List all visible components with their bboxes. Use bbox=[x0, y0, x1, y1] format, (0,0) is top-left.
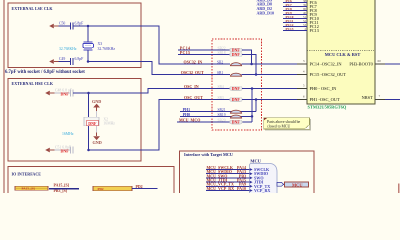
svg-text:PC14 -OSC32_IN: PC14 -OSC32_IN bbox=[310, 61, 343, 66]
MCU U? block bbox=[307, 0, 375, 104]
svg-text:MCU CLK & RST: MCU CLK & RST bbox=[325, 52, 361, 57]
svg-text:GND: GND bbox=[92, 99, 101, 104]
svg-text:PC13: PC13 bbox=[286, 27, 294, 31]
wire node B to OSC32_OUT row bbox=[88, 62, 230, 75]
wire PH0 row bbox=[180, 115, 252, 117]
note box bbox=[264, 118, 311, 131]
harness sheet entry MCU bbox=[285, 182, 309, 187]
wire PC13 bbox=[283, 30, 307, 32]
solder bridge SB3 (DNF) bbox=[218, 96, 243, 102]
svg-text:60: 60 bbox=[378, 59, 382, 63]
harness group MCU bbox=[250, 158, 278, 193]
svg-text:PH3-BOOT0: PH3-BOOT0 bbox=[349, 61, 373, 66]
harness row MCU_SWCLK bbox=[206, 165, 270, 172]
svg-text:PC15 -OSC32_OUT: PC15 -OSC32_OUT bbox=[310, 72, 347, 77]
svg-text:MCU: MCU bbox=[250, 158, 261, 163]
svg-text:16MHz: 16MHz bbox=[103, 122, 115, 126]
wire crystal to node B bbox=[87, 50, 89, 62]
wire PC11 bbox=[283, 22, 307, 24]
svg-text:OSC_OUT: OSC_OUT bbox=[184, 95, 203, 100]
junction OSC32_IN bbox=[250, 63, 253, 66]
svg-text:PB3_[S]: PB3_[S] bbox=[54, 189, 68, 193]
wire MCU_MCO row bbox=[177, 121, 252, 123]
svg-text:NRST: NRST bbox=[362, 95, 374, 100]
wire NRST bbox=[385, 99, 400, 101]
svg-text:PC13: PC13 bbox=[310, 28, 319, 33]
box EXTERNAL LSE CLK bbox=[8, 3, 141, 68]
svg-text:32.768KHz: 32.768KHz bbox=[59, 47, 77, 51]
capacitor C49 bbox=[59, 57, 84, 65]
solder bridge SB18 (DNF) bbox=[218, 51, 243, 57]
svg-text:DNF: DNF bbox=[232, 52, 241, 57]
dashed solder-bridge box bbox=[212, 39, 262, 130]
capacitor C50 bbox=[59, 22, 84, 30]
svg-text:SB22: SB22 bbox=[218, 46, 226, 50]
node A junction bbox=[87, 25, 90, 28]
svg-text:Interface with Target MCU: Interface with Target MCU bbox=[184, 152, 233, 157]
svg-text:SB4: SB4 bbox=[218, 85, 224, 89]
pin stubs (dark) bbox=[297, 63, 307, 65]
svg-text:PA15_[S]: PA15_[S] bbox=[54, 183, 70, 187]
box IO INTERFACE bbox=[8, 167, 174, 197]
svg-text:PH0 - OSC_IN: PH0 - OSC_IN bbox=[310, 86, 338, 91]
svg-text:OSC_IN: OSC_IN bbox=[184, 84, 199, 89]
svg-text:PA15_[S]: PA15_[S] bbox=[22, 187, 35, 191]
solder bridge SB22 (DNF) bbox=[218, 46, 243, 52]
svg-text:DNF: DNF bbox=[232, 120, 241, 125]
solder bridge SB19 (closed) bbox=[218, 113, 242, 118]
svg-text:EXTERNAL LSE CLK: EXTERNAL LSE CLK bbox=[12, 6, 54, 11]
wire SB18 to vertical bbox=[242, 55, 256, 75]
bus wire PA15 bbox=[49, 188, 79, 190]
ground arrow (C49 left) bbox=[49, 59, 58, 64]
wire PH1 row bbox=[180, 111, 256, 113]
junction OSC_IN bbox=[251, 87, 254, 90]
vertical OSC_IN to PH0/MCU_MCO bbox=[251, 89, 253, 123]
solder bridge SB4 (DNF) bbox=[218, 85, 243, 91]
svg-text:SB20: SB20 bbox=[218, 118, 226, 122]
sheet border left bbox=[3, 0, 5, 193]
wire PC7 bbox=[283, 5, 307, 7]
svg-text:SB18: SB18 bbox=[218, 51, 226, 55]
svg-text:16MHz: 16MHz bbox=[62, 132, 74, 136]
solder bridge SB20 (DNF) bbox=[218, 118, 243, 124]
svg-text:EXTERNAL HSE CLK: EXTERNAL HSE CLK bbox=[12, 81, 54, 86]
svg-text:SB19: SB19 bbox=[218, 113, 226, 117]
wire SB22 to vertical bbox=[242, 50, 252, 64]
svg-text:32.768KHz: 32.768KHz bbox=[98, 47, 116, 51]
ground arrow (C51 left) bbox=[45, 148, 54, 153]
wire PC6 bbox=[283, 1, 307, 3]
svg-text:SB1: SB1 bbox=[217, 71, 223, 75]
wire crystal X2 to node D bbox=[88, 126, 90, 150]
wire PC9 bbox=[283, 14, 307, 16]
box Interface with Target MCU bbox=[180, 151, 315, 196]
ground arrow (C50 left) bbox=[49, 24, 58, 29]
solder bridge SB2 (closed) bbox=[217, 60, 242, 65]
net labels PC6..PC13 bbox=[286, 0, 294, 31]
svg-text:X3: X3 bbox=[98, 42, 103, 46]
wire PH3-BOOT0 bbox=[385, 63, 400, 65]
solder bridge SB1 (closed) bbox=[217, 71, 242, 76]
wire to chip pin 4 bbox=[242, 74, 307, 76]
wire PC10 bbox=[283, 18, 307, 20]
pin numbers top bbox=[303, 0, 307, 31]
wire node C down to crystal X2 bbox=[88, 93, 90, 117]
pin 7 stub bbox=[375, 99, 385, 101]
harness connector to MCU box bbox=[277, 182, 287, 186]
svg-text:closed to MCU: closed to MCU bbox=[267, 124, 290, 128]
wire node C to OSC_IN row bbox=[89, 89, 231, 94]
wire node A down to crystal bbox=[87, 26, 89, 42]
junction OSC32_OUT bbox=[255, 73, 258, 76]
wire to chip pin 3 bbox=[242, 63, 307, 65]
GND symbol above crystal bbox=[92, 99, 101, 117]
svg-text:PD2: PD2 bbox=[98, 187, 104, 191]
svg-text:SB3: SB3 bbox=[218, 96, 224, 100]
crystal X3 bbox=[59, 42, 115, 51]
svg-text:DNF: DNF bbox=[232, 86, 241, 91]
svg-text:DNF: DNF bbox=[88, 121, 97, 126]
capacitor C48 (DNF) bbox=[55, 88, 73, 96]
GND symbol below crystal bbox=[93, 126, 102, 145]
sheet border fragment bottom right bbox=[398, 184, 400, 194]
capacitor C51 (DNF) bbox=[55, 146, 73, 154]
wire to chip pin 6 bbox=[242, 99, 307, 101]
ground arrow (C48 left) bbox=[45, 91, 54, 96]
svg-text:SB21: SB21 bbox=[218, 108, 226, 112]
svg-text:C50: C50 bbox=[59, 22, 65, 26]
node C junction bbox=[87, 92, 90, 95]
svg-text:PH1 -OSC_OUT: PH1 -OSC_OUT bbox=[310, 97, 340, 102]
svg-text:6.7pF with socket / 6.8pF with: 6.7pF with socket / 6.8pF without socket bbox=[5, 70, 85, 75]
harness row MCU_JTDI bbox=[206, 178, 264, 185]
net labels ARD bbox=[257, 0, 275, 15]
svg-text:VCP_RX: VCP_RX bbox=[254, 188, 270, 193]
svg-text:6.8pF: 6.8pF bbox=[75, 22, 84, 26]
wire C48 to node C bbox=[73, 92, 89, 94]
svg-text:DNF: DNF bbox=[61, 92, 70, 97]
vertical OSC_OUT to PH1 bbox=[255, 100, 257, 112]
chip-internal pin names PC6..PC13 bbox=[310, 0, 319, 33]
crystal X2 (DNF) bbox=[62, 117, 115, 136]
wire OSC32_IN row bbox=[159, 63, 230, 65]
node D junction bbox=[87, 149, 90, 152]
wire PC12 bbox=[283, 26, 307, 28]
port PD2 bbox=[93, 186, 132, 191]
svg-text:STM32U585RGT6Q: STM32U585RGT6Q bbox=[308, 104, 347, 109]
svg-text:GND: GND bbox=[93, 140, 102, 145]
node B junction bbox=[87, 60, 90, 63]
svg-text:ARD_D10: ARD_D10 bbox=[257, 11, 275, 16]
box EXTERNAL HSE CLK bbox=[8, 78, 141, 161]
junction PH0 bbox=[251, 115, 254, 118]
svg-text:6.8pF: 6.8pF bbox=[75, 57, 84, 61]
svg-text:SB2: SB2 bbox=[217, 60, 223, 64]
wire PC8 bbox=[283, 9, 307, 11]
svg-text:OSC32_OUT: OSC32_OUT bbox=[181, 70, 204, 75]
svg-text:DNF: DNF bbox=[232, 97, 241, 102]
wire node A to OSC32_IN row bbox=[88, 26, 230, 64]
harness row MCU_VCP_RX bbox=[206, 186, 270, 193]
svg-text:DNF: DNF bbox=[61, 149, 70, 154]
wire PC15 row bbox=[178, 54, 230, 56]
wire node D to OSC_OUT row bbox=[89, 100, 231, 151]
pin 60 stub bbox=[375, 63, 385, 65]
solder bridge SB21 (closed) bbox=[218, 108, 242, 113]
svg-text:MCU: MCU bbox=[292, 182, 303, 187]
harness row MCU_VCP_TX bbox=[206, 182, 270, 189]
wire PD2 bbox=[132, 187, 158, 189]
wire to chip pin 5 bbox=[242, 88, 307, 90]
junction OSC_OUT bbox=[255, 98, 258, 101]
port PA15 bbox=[15, 186, 48, 190]
harness row MCU_SWO bbox=[206, 173, 264, 180]
wire PC14 row bbox=[178, 49, 230, 51]
svg-text:C49: C49 bbox=[59, 57, 65, 61]
wire C50 to node A bbox=[73, 25, 88, 27]
top pin rows PC6..PC13 bbox=[283, 2, 307, 30]
svg-text:IO INTERFACE: IO INTERFACE bbox=[12, 172, 42, 177]
harness row MCU_SWDIO bbox=[206, 169, 268, 176]
